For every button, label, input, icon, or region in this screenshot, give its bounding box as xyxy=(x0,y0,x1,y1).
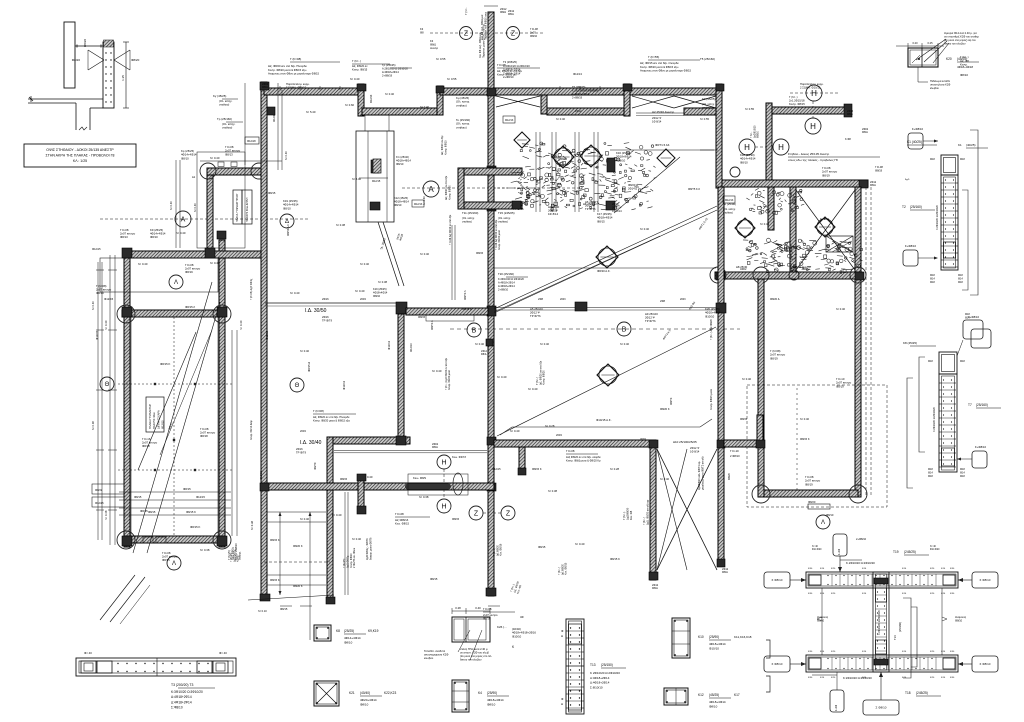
svg-text:h= 0.40: h= 0.40 xyxy=(210,261,220,265)
svg-text:Φ8/10: Φ8/10 xyxy=(344,641,353,645)
svg-text:2+Φ8/19: 2+Φ8/19 xyxy=(572,96,583,100)
svg-text:Φ8/15 Δ: Φ8/15 Δ xyxy=(307,362,311,372)
svg-text:Z: Z xyxy=(474,511,479,518)
svg-text:h= 0.38: h= 0.38 xyxy=(250,520,254,530)
svg-text:h= 0.40: h= 0.40 xyxy=(432,369,442,373)
svg-text:Γ ΣΩΜΑ. Φ20/12: Γ ΣΩΜΑ. Φ20/12 xyxy=(286,86,307,90)
svg-text:Κ26 (...: Κ26 (... xyxy=(497,625,507,629)
svg-text:Ι.Δ. 30/50: Ι.Δ. 30/50 xyxy=(305,308,327,314)
svg-text:H: H xyxy=(778,143,784,152)
svg-text:4Φ20+4Φ14: 4Φ20+4Φ14 xyxy=(360,698,377,702)
svg-text:h= 0.40: h= 0.40 xyxy=(475,342,485,346)
svg-text:4Φ18+4Φ18: 4Φ18+4Φ18 xyxy=(957,65,973,69)
svg-text:Σ:Φ8/10: Σ:Φ8/10 xyxy=(171,706,183,710)
svg-text:οπως εδω της πλακας - προβολ: οπως εδω της πλακας - προβολος Γ8 xyxy=(788,158,838,162)
svg-text:στηθαιο): στηθαιο) xyxy=(456,125,467,129)
svg-text:Φ8/Δ: Φ8/Δ xyxy=(862,131,868,134)
svg-text:Φ8/Δ: Φ8/Δ xyxy=(430,42,436,46)
svg-text:να υποστθμιζ Κ2Φ του σταθερ: να υποστθμιζ Κ2Φ του σταθερ xyxy=(944,35,979,39)
svg-text:Γ (h=..): Γ (h=..) xyxy=(352,59,361,63)
svg-text:Κεντρ. Φ8/10 διαφ: Κεντρ. Φ8/10 διαφ xyxy=(250,420,253,440)
svg-text:Γ (h=08): Γ (h=08) xyxy=(290,57,301,61)
svg-text:Φ8/10: Φ8/10 xyxy=(360,703,369,707)
svg-text:Φ18: Φ18 xyxy=(930,158,935,161)
svg-text:h= 0.40: h= 0.40 xyxy=(91,301,95,310)
svg-text:h= 0.40: h= 0.40 xyxy=(210,156,220,160)
svg-text:h= 0.40: h= 0.40 xyxy=(290,291,300,295)
svg-text:Φ12/15: Φ12/15 xyxy=(161,420,165,429)
svg-text:Φ18: Φ18 xyxy=(928,475,933,478)
svg-text:Φ8/10: Φ8/10 xyxy=(826,513,834,517)
svg-text:Γ D-08: Γ D-08 xyxy=(530,27,538,31)
svg-text:κλωβου: κλωβου xyxy=(930,86,940,90)
svg-text:H: H xyxy=(744,143,750,152)
svg-text:2003: 2003 xyxy=(560,298,566,301)
svg-text:(25/90): (25/90) xyxy=(709,635,719,639)
svg-text:Φ8/15 Κ: Φ8/15 Κ xyxy=(190,525,200,529)
svg-text:ΣΤΗΝ ΑΚΡΗ ΤΗΣ ΠΛΑΚΑΣ - ΠΡΟΒΟ: ΣΤΗΝ ΑΚΡΗ ΤΗΣ ΠΛΑΚΑΣ - ΠΡΟΒΟΛΟΙ Γ8 xyxy=(46,154,115,158)
svg-text:Κ17: Κ17 xyxy=(734,693,740,697)
svg-text:Φ10/10: Φ10/10 xyxy=(705,314,715,318)
svg-text:Κ:3Φ10/20 Ω:3Φ10/20: Κ:3Φ10/20 Ω:3Φ10/20 xyxy=(171,690,203,694)
svg-text:h= 0.38: h= 0.38 xyxy=(336,223,346,227)
svg-text:Φ8/15 Κ: Φ8/15 Κ xyxy=(270,538,280,542)
svg-text:Κ12 (45/25): Κ12 (45/25) xyxy=(394,196,408,200)
svg-text:μεγαλ. Φ8/Δ: μεγαλ. Φ8/Δ xyxy=(650,511,653,525)
svg-text:Φ8/15: Φ8/15 xyxy=(418,315,426,319)
svg-text:Φ8/20: Φ8/20 xyxy=(131,58,140,62)
svg-text:Φ12/13: Φ12/13 xyxy=(370,94,373,103)
svg-text:Τ15 (245/25): Τ15 (245/25) xyxy=(498,211,515,215)
svg-text:4Φ8/10: 4Φ8/10 xyxy=(616,158,626,162)
svg-text:Φ8/15 Κ: Φ8/15 Κ xyxy=(270,578,280,582)
svg-text:Φ12/13: Φ12/13 xyxy=(573,72,582,76)
svg-text:Κεν. Φ8: Κεν. Φ8 xyxy=(629,510,633,520)
svg-text:h= 0.40: h= 0.40 xyxy=(660,477,670,481)
svg-text:h= 0.40: h= 0.40 xyxy=(836,307,846,311)
svg-text:Φ8/15: Φ8/15 xyxy=(476,251,484,255)
svg-text:Φ8/15: Φ8/15 xyxy=(740,417,748,421)
svg-text:Γ D-08 Διξ Φ8/20 αν στα δξκ: Γ D-08 Διξ Φ8/20 αν στα δξκ xyxy=(449,214,452,245)
svg-text:Σ+Φ8: Σ+Φ8 xyxy=(835,704,838,711)
svg-text:Φ8/10: Φ8/10 xyxy=(483,617,491,621)
svg-text:Κεντρ. Φ8/Δ μεσα & Φ8/20 Κρ: Κεντρ. Φ8/Δ μεσα & Φ8/20 Κρ xyxy=(566,459,601,463)
svg-text:Κγ (45/25): Κγ (45/25) xyxy=(213,94,226,98)
svg-text:στηθαιο): στηθαιο) xyxy=(456,103,467,107)
svg-text:2+Φ8/10: 2+Φ8/10 xyxy=(856,537,867,541)
svg-text:Φ8/10: Φ8/10 xyxy=(757,131,760,138)
svg-text:h= 0.40: h= 0.40 xyxy=(497,375,507,379)
svg-text:2x07 κεντρο: 2x07 κεντρο xyxy=(483,613,498,617)
svg-text:Κ.Φ8: Κ.Φ8 xyxy=(845,138,851,141)
svg-text:Γ D-08: Γ D-08 xyxy=(497,63,506,67)
svg-text:h= 0.38: h= 0.38 xyxy=(378,280,388,284)
svg-text:Κεντρ. Φ8/20: Κεντρ. Φ8/20 xyxy=(448,185,451,200)
svg-text:h= 0.40: h= 0.40 xyxy=(385,92,395,96)
svg-text:Φ8/13: Φ8/13 xyxy=(120,235,128,239)
svg-text:Φ8/10: Φ8/10 xyxy=(394,203,402,207)
svg-text:2 ΦΕ/Τδ αν. Φδοκ: 2 ΦΕ/Τδ αν. Φδοκ xyxy=(353,547,356,568)
svg-text:Φ8/Δ: Φ8/Δ xyxy=(508,13,514,16)
svg-text:Γ (h=55): Γ (h=55) xyxy=(648,55,659,59)
svg-text:Φ8/Τ3: Φ8/Τ3 xyxy=(669,397,673,405)
svg-text:A: A xyxy=(428,185,434,194)
svg-text:Φ18: Φ18 xyxy=(960,158,965,161)
svg-text:Φ8/15: Φ8/15 xyxy=(340,477,348,481)
svg-text:(Ολ. κατηγ.: (Ολ. κατηγ. xyxy=(462,216,475,220)
svg-text:Κ:2Φ10/20 Ω:2Φ10/20: Κ:2Φ10/20 Ω:2Φ10/20 xyxy=(843,676,872,680)
svg-text:Φ14 Φ20: Φ14 Φ20 xyxy=(812,548,822,551)
svg-text:Φ8/20 Α.Σ.: Φ8/20 Α.Σ. xyxy=(597,269,611,273)
svg-text:1.35: 1.35 xyxy=(121,75,125,81)
svg-text:Κ19 (25/25): Κ19 (25/25) xyxy=(373,287,387,291)
svg-text:Φ8/15 Δ: Φ8/15 Δ xyxy=(462,307,472,311)
svg-text:Ι.Δ. 30/40: Ι.Δ. 30/40 xyxy=(300,440,322,446)
svg-text:h= 0.28: h= 0.28 xyxy=(610,467,620,471)
svg-text:(25/25): (25/25) xyxy=(344,629,354,633)
svg-text:Φ8/10: Φ8/10 xyxy=(396,162,404,166)
svg-text:Κεντρ. Φ8/20 μεσα & Φ8/15 εξω: Κεντρ. Φ8/20 μεσα & Φ8/15 εξω xyxy=(313,419,350,423)
svg-text:Κεν. Φ8/1δ: Κεν. Φ8/1δ xyxy=(500,543,503,556)
svg-text:Φ8/18: Φ8/18 xyxy=(200,434,208,438)
svg-text:Παραπετ. κολ Φ8/10 ανω: Παραπετ. κολ Φ8/10 ανω xyxy=(484,12,487,40)
svg-text:H: H xyxy=(811,89,817,98)
svg-text:Δ8 25/30: Δ8 25/30 xyxy=(736,265,748,269)
svg-text:(25/160): (25/160) xyxy=(976,403,988,407)
svg-text:(Ολ. κατηγ.: (Ολ. κατηγ. xyxy=(498,216,511,220)
svg-text:h= 0.38: h= 0.38 xyxy=(104,510,108,520)
svg-text:Α:2Φ10/20 Ω:2Φ10/20: Α:2Φ10/20 Ω:2Φ10/20 xyxy=(382,67,408,71)
svg-text:Φ8/15 Λ: Φ8/15 Λ xyxy=(185,305,195,309)
svg-text:Πεδιλωμα εσταθε: Πεδιλωμα εσταθε xyxy=(930,79,951,83)
svg-text:Παραπετασμ. κορμ.: Παραπετασμ. κορμ. xyxy=(800,82,824,86)
svg-text:(Ολ. κατηγ.: (Ολ. κατηγ. xyxy=(222,122,236,126)
svg-text:Φ8/15: Φ8/15 xyxy=(162,558,170,562)
svg-text:Α:2Φ10/20 Ω:2Φ10/20: Α:2Φ10/20 Ω:2Φ10/20 xyxy=(503,64,530,68)
svg-text:Τ20 (25/160): Τ20 (25/160) xyxy=(498,272,514,276)
svg-text:Φ8/19: Φ8/19 xyxy=(770,356,778,360)
svg-text:Κ22,Κ23: Κ22,Κ23 xyxy=(384,691,396,695)
svg-text:Δ:4Φ18+2Φ14: Δ:4Φ18+2Φ14 xyxy=(171,700,192,704)
svg-text:Αναμονες: Αναμονες xyxy=(955,615,967,619)
svg-text:Φ12/15: Φ12/15 xyxy=(95,330,99,340)
svg-text:Κ10: Κ10 xyxy=(698,635,704,639)
svg-text:Φ18: Φ18 xyxy=(958,281,963,284)
svg-text:Σ+Φ8: Σ+Φ8 xyxy=(838,548,841,555)
svg-text:αποστηριγμενα Κ2Φ: αποστηριγμενα Κ2Φ xyxy=(424,653,448,657)
svg-text:(45/25): (45/25) xyxy=(709,693,719,697)
svg-text:Τ14: Τ14 xyxy=(893,635,897,640)
svg-text:Σ+Φ8/10: Σ+Φ8/10 xyxy=(975,445,986,449)
svg-text:Φ8/Δ: Φ8/Δ xyxy=(652,587,658,590)
svg-text:Κ:2Φ10/20 Ω:2Φ10/20: Κ:2Φ10/20 Ω:2Φ10/20 xyxy=(933,406,936,432)
svg-text:Φ10/15 Α.Σ.: Φ10/15 Α.Σ. xyxy=(596,418,612,422)
svg-text:Δ:4Φ18+2Φ14: Δ:4Φ18+2Φ14 xyxy=(590,681,610,685)
svg-text:2Φ12 Ψ: 2Φ12 Ψ xyxy=(690,446,699,450)
svg-text:Φ8/Δ: Φ8/Δ xyxy=(481,353,487,356)
svg-text:Κεντρ.: Κεντρ. xyxy=(237,555,240,562)
svg-text:Φ8/10: Φ8/10 xyxy=(150,235,158,239)
svg-text:Φ12/13: Φ12/13 xyxy=(505,119,514,122)
svg-text:Γ (h=08): Γ (h=08) xyxy=(313,409,324,413)
svg-text:Α:4Φ18+2Φ14: Α:4Φ18+2Φ14 xyxy=(572,92,589,96)
svg-text:ΤΡ Φ/Τδ: ΤΡ Φ/Τδ xyxy=(585,207,596,211)
svg-text:h= 0.55: h= 0.55 xyxy=(447,77,457,81)
svg-text:Διξ. Φ8/20 αν στα δξκ. Πλευρδκ: Διξ. Φ8/20 αν στα δξκ. Πλευρδκ xyxy=(313,415,350,419)
svg-text:Κεντρ. Φ8/15: Κεντρ. Φ8/15 xyxy=(789,102,805,106)
svg-text:h= 0.40: h= 0.40 xyxy=(332,513,342,517)
svg-text:Λ: Λ xyxy=(172,561,176,567)
svg-text:ΠΛΑΚΑ ΓΥΜΝΑΣΤΗΡΙΟΥ: ΠΛΑΚΑ ΓΥΜΝΑΣΤΗΡΙΟΥ xyxy=(236,193,239,222)
svg-text:Φ8/15 Κ: Φ8/15 Κ xyxy=(800,437,810,441)
svg-text:2Φ8: 2Φ8 xyxy=(660,299,666,303)
svg-text:ανεστρ: ανεστρ xyxy=(430,47,439,50)
svg-text:h= 0.40: h= 0.40 xyxy=(820,217,830,221)
svg-text:4Φ: 4Φ xyxy=(520,615,524,619)
svg-text:4Φ18+4Φ14: 4Φ18+4Φ14 xyxy=(396,159,411,163)
svg-text:Γ D-08: Γ D-08 xyxy=(875,165,883,169)
svg-text:2Φ14 Δ: 2Φ14 Δ xyxy=(628,187,637,191)
svg-text:Κ:2Φ10/20 Ω:2Φ10/20: Κ:2Φ10/20 Ω:2Φ10/20 xyxy=(572,89,598,93)
svg-text:Λ: Λ xyxy=(821,520,825,526)
svg-text:Α:4Φ18+2Φ14: Α:4Φ18+2Φ14 xyxy=(590,676,610,680)
svg-text:ΠΑΧΟΥΣ 30εκ ΔΙΠΛΗ: ΠΑΧΟΥΣ 30εκ ΔΙΠΛΗ xyxy=(246,198,249,222)
svg-text:Α:4Φ18+2Φ14: Α:4Φ18+2Φ14 xyxy=(498,281,515,285)
svg-text:h= 0.40: h= 0.40 xyxy=(620,342,630,346)
svg-text:h= 0.40: h= 0.40 xyxy=(176,231,186,235)
svg-text:Κεντρ. Φ8/15: Κεντρ. Φ8/15 xyxy=(352,67,368,71)
svg-text:Κ9,Κ19: Κ9,Κ19 xyxy=(368,629,379,633)
svg-text:h= 0.40: h= 0.40 xyxy=(575,542,585,546)
svg-text:Γ D-08: Γ D-08 xyxy=(483,607,492,611)
svg-text:h= 0.40: h= 0.40 xyxy=(510,429,520,433)
svg-text:2Φ16: 2Φ16 xyxy=(322,315,329,319)
svg-text:Κεντρ. Φ8/15 μεσα: Κεντρ. Φ8/15 μεσα xyxy=(710,389,713,410)
svg-text:h= 0.60: h= 0.60 xyxy=(345,103,355,107)
svg-text:Φ8/Δ: Φ8/Δ xyxy=(432,446,438,449)
svg-text:h= 5.40: h= 5.40 xyxy=(306,110,316,114)
svg-text:Το (25/90): Το (25/90) xyxy=(723,202,736,206)
svg-text:Φ8/Τ5 Κ.Σ: Φ8/Τ5 Κ.Σ xyxy=(688,187,700,191)
svg-text:h= 0.40: h= 0.40 xyxy=(300,349,310,353)
svg-text:Φ8/20: Φ8/20 xyxy=(728,473,731,480)
svg-text:Φ8/10: Φ8/10 xyxy=(181,156,189,160)
svg-text:h= 0.28: h= 0.28 xyxy=(545,424,555,428)
svg-text:Δ8 25/30 Ανεστρ: Δ8 25/30 Ανεστρ xyxy=(790,265,811,269)
svg-text:(Ολ. κατηγ.: (Ολ. κατηγ. xyxy=(219,99,233,103)
svg-text:h= 0.38: h= 0.38 xyxy=(91,421,95,430)
svg-text:h= 0.38: h= 0.38 xyxy=(200,548,210,552)
svg-text:Φ8/10: Φ8/10 xyxy=(283,206,291,210)
svg-text:υποστηλωτα Κ2Φ: υποστηλωτα Κ2Φ xyxy=(930,83,950,87)
svg-text:Φ8/15: Φ8/15 xyxy=(560,157,568,161)
svg-text:ΔχΩΦ8/20: ΔχΩΦ8/20 xyxy=(625,507,629,520)
svg-text:2Φ12 Ψ: 2Φ12 Ψ xyxy=(652,116,661,120)
svg-text:1Φ 8/14: 1Φ 8/14 xyxy=(690,449,700,453)
svg-text:Φ12/13: Φ12/13 xyxy=(409,343,413,352)
svg-text:h= 0.40: h= 0.40 xyxy=(352,537,362,541)
svg-text:Θ: Θ xyxy=(105,382,110,388)
svg-text:Διξ. Φ8/20 αν: Διξ. Φ8/20 αν xyxy=(352,64,368,68)
svg-text:Κεντρ. Φ8/20 με..: Κεντρ. Φ8/20 με.. xyxy=(497,72,517,76)
svg-text:Φ8/15 Κ: Φ8/15 Κ xyxy=(186,510,196,514)
svg-text:Κεντρ. Φ8/20 μεσα & Φ8/15 εξω: Κεντρ. Φ8/20 μεσα & Φ8/15 εξω xyxy=(640,65,678,69)
svg-text:2 ΣΩΜΑ. Φ20/12: 2 ΣΩΜΑ. Φ20/12 xyxy=(800,86,821,90)
svg-text:H: H xyxy=(441,504,446,511)
svg-text:Φ8/Δ: Φ8/Δ xyxy=(722,571,728,574)
svg-text:h= 0.55: h= 0.55 xyxy=(745,107,755,111)
svg-text:Κ8 (45/25): Κ8 (45/25) xyxy=(903,341,917,345)
svg-text:ΚΛ : 1/25: ΚΛ : 1/25 xyxy=(73,159,87,163)
svg-text:Φ8/15: Φ8/15 xyxy=(280,607,288,611)
svg-text:(25/160): (25/160) xyxy=(910,205,922,209)
svg-text:Φ8/19: Φ8/19 xyxy=(805,482,813,486)
svg-text:0.20: 0.20 xyxy=(912,41,918,45)
svg-text:Γ (h=..) ΔχΩ Φ8/20: Γ (h=..) ΔχΩ Φ8/20 xyxy=(710,318,713,340)
svg-text:Φ8/20 Δ: Φ8/20 Δ xyxy=(770,297,780,301)
svg-text:Φ8/10: Φ8/10 xyxy=(530,34,538,38)
svg-text:Φ8/20 Δ: Φ8/20 Δ xyxy=(628,183,638,187)
svg-text:Φ12/15: Φ12/15 xyxy=(259,471,263,480)
svg-text:Γ (h=25) ΔχΩ Φ8/2χ: Γ (h=25) ΔχΩ Φ8/2χ xyxy=(250,278,253,300)
svg-text:Φ8/15: Φ8/15 xyxy=(597,219,605,223)
svg-text:Κ20: Κ20 xyxy=(946,57,952,61)
svg-text:Γ (h=..): Γ (h=..) xyxy=(622,512,626,520)
svg-text:Φ12/15: Φ12/15 xyxy=(372,180,381,183)
svg-text:2x07: 2x07 xyxy=(530,30,536,34)
svg-text:Φ12/13: Φ12/13 xyxy=(342,380,346,390)
svg-text:Φ12/15: Φ12/15 xyxy=(95,501,104,505)
svg-text:Κεντρ. Φ8/20 μεσα: Κεντρ. Φ8/20 μεσα xyxy=(498,229,501,250)
svg-text:Κ11,Κ16,Κ18: Κ11,Κ16,Κ18 xyxy=(734,635,752,639)
svg-text:Τ7: Τ7 xyxy=(968,403,972,407)
svg-text:Κεω. Φ3/Γδ: Κεω. Φ3/Γδ xyxy=(452,455,466,459)
svg-text:Κεντρ. Φ8/20 μεσα: Κεντρ. Φ8/20 μεσα xyxy=(448,369,451,390)
svg-text:2x1.2Φ15/18: 2x1.2Φ15/18 xyxy=(789,99,805,103)
svg-text:h= 40: h= 40 xyxy=(812,546,819,548)
svg-text:Τ2: Τ2 xyxy=(902,205,906,209)
svg-text:Τ5 (265/25): Τ5 (265/25) xyxy=(572,85,586,89)
svg-text:Φ8/19: Φ8/19 xyxy=(185,270,193,274)
svg-text:h= 0.10: h= 0.10 xyxy=(258,609,267,613)
svg-text:Φ8/15: Φ8/15 xyxy=(134,495,142,499)
svg-text:Κ:2Φ10/20 Ω:2Φ10/20: Κ:2Φ10/20 Ω:2Φ10/20 xyxy=(878,609,881,635)
svg-text:Θ: Θ xyxy=(295,383,300,389)
svg-text:Φ12/13: Φ12/13 xyxy=(725,199,734,202)
svg-text:(25/160): (25/160) xyxy=(898,622,902,632)
svg-text:Φ12/13: Φ12/13 xyxy=(414,203,423,206)
svg-text:(2ο μεσο στο μηκος στο τελ: (2ο μεσο στο μηκος στο τελ xyxy=(460,654,492,658)
svg-text:Φ8/Τ1.5 ΑΣ.: Φ8/Τ1.5 ΑΣ. xyxy=(655,143,670,147)
svg-text:h= 0.38: h= 0.38 xyxy=(548,489,558,493)
svg-text:Φ8/19: Φ8/19 xyxy=(822,173,830,177)
svg-text:στηθαιο): στηθαιο) xyxy=(219,103,229,107)
svg-text:σε αποστ. Κ2Φ του κλωβ: σε αποστ. Κ2Φ του κλωβ xyxy=(460,651,489,655)
svg-text:h= 0.40: h= 0.40 xyxy=(800,417,810,421)
svg-text:Τ5 (25/160): Τ5 (25/160) xyxy=(700,57,715,61)
svg-text:Φ8/Δ: Φ8/Δ xyxy=(847,113,853,116)
svg-text:Τρ (255/25): Τρ (255/25) xyxy=(382,63,396,67)
svg-text:Φ18: Φ18 xyxy=(960,475,965,478)
svg-text:Κ12: Κ12 xyxy=(698,693,704,697)
svg-text:2003: 2003 xyxy=(680,298,686,301)
svg-text:Κεω. Φ8/15: Κεω. Φ8/15 xyxy=(395,522,409,526)
svg-text:Φ8/20 Κ: Φ8/20 Κ xyxy=(660,407,670,411)
svg-text:στηθαιο): στηθαιο) xyxy=(723,210,733,214)
svg-text:Διξ. Φ8/15 κεν στα δξκ. πλευρδ: Διξ. Φ8/15 κεν στα δξκ. πλευρδκ xyxy=(640,61,679,65)
svg-text:Κ1: Κ1 xyxy=(958,143,962,147)
svg-text:στηθαιο): στηθαιο) xyxy=(462,219,472,223)
svg-text:1Φ 8/14: 1Φ 8/14 xyxy=(652,119,662,123)
svg-text:(25/150): (25/150) xyxy=(601,663,613,667)
svg-text:Z: Z xyxy=(506,511,511,518)
svg-text:Κεντρ. Φ8/15: Κεντρ. Φ8/15 xyxy=(444,140,447,155)
svg-text:2Φ16: 2Φ16 xyxy=(322,297,329,301)
svg-text:Δ:4Φ18+2Φ14: Δ:4Φ18+2Φ14 xyxy=(498,284,515,288)
svg-text:4Φ18+4Φ14: 4Φ18+4Φ14 xyxy=(709,700,726,704)
svg-text:Δ2 25/30 Ανεστρ: Δ2 25/30 Ανεστρ xyxy=(652,110,675,114)
svg-text:ΠΑΧΟΥΣ 30εκ: ΠΑΧΟΥΣ 30εκ xyxy=(152,412,156,429)
svg-text:Παραπετασμ. κορμ.: Παραπετασμ. κορμ. xyxy=(286,82,310,86)
svg-text:Φ8/19: Φ8/19 xyxy=(836,384,844,388)
svg-text:Γ D-08: Γ D-08 xyxy=(395,512,404,516)
svg-text:Σ Φ8/10: Σ Φ8/10 xyxy=(772,662,783,666)
svg-text:Φ18: Φ18 xyxy=(928,360,933,363)
svg-text:Σ:Φ10/10: Σ:Φ10/10 xyxy=(590,685,603,689)
svg-text:ΔΙΠΛΗ ΕΣΧΑΡΑ: ΔΙΠΛΗ ΕΣΧΑΡΑ xyxy=(156,410,160,429)
svg-text:Φ8/19: Φ8/19 xyxy=(95,488,103,492)
svg-text:h= 0.40: h= 0.40 xyxy=(556,117,566,121)
svg-text:κλωβου: κλωβου xyxy=(424,656,434,660)
svg-text:Σ+Φ8/10: Σ+Φ8/10 xyxy=(905,244,916,248)
svg-text:Δ: Δ xyxy=(561,702,563,706)
svg-text:h= 0.40: h= 0.40 xyxy=(355,289,365,293)
svg-text:h= 0.40: h= 0.40 xyxy=(420,252,430,256)
svg-text:Φ8/15 Κ: Φ8/15 Κ xyxy=(610,557,620,561)
svg-text:Κ:2Φ10/20 Ω:2Φ10/20: Κ:2Φ10/20 Ω:2Φ10/20 xyxy=(498,277,524,281)
svg-text:Γ (h=..): Γ (h=..) xyxy=(789,95,798,99)
svg-text:Φ8/10: Φ8/10 xyxy=(373,294,381,298)
svg-text:δικτυο του κλωβου: δικτυο του κλωβου xyxy=(944,42,966,46)
svg-text:Στηθαιο - Δοκος 25/135 Ανε: Στηθαιο - Δοκος 25/135 Ανεστρ xyxy=(788,152,830,156)
svg-text:Φ8/15: Φ8/15 xyxy=(183,487,191,491)
svg-text:h= 40: h= 40 xyxy=(930,546,937,548)
svg-text:Φ8/20 Κ: Φ8/20 Κ xyxy=(293,584,303,588)
svg-text:σταση ΓΡΗ μεσα 2.40 μ.: σταση ΓΡΗ μεσα 2.40 μ. xyxy=(460,647,488,651)
svg-text:h= 0.40: h= 0.40 xyxy=(284,151,288,160)
svg-text:B: B xyxy=(622,327,627,334)
svg-text:0.40: 0.40 xyxy=(475,606,481,610)
svg-text:h= 0.40: h= 0.40 xyxy=(540,342,550,346)
svg-text:Γ D-08: Γ D-08 xyxy=(566,449,575,453)
svg-text:Φ8/15: Φ8/15 xyxy=(148,510,156,514)
svg-text:1Φ 8/14: 1Φ 8/14 xyxy=(548,212,558,216)
svg-text:h= 0.55: h= 0.55 xyxy=(700,117,710,121)
svg-text:ΤΡ Φ/Τδ: ΤΡ Φ/Τδ xyxy=(645,319,656,323)
svg-text:3003: 3003 xyxy=(640,437,646,441)
svg-text:Φ8/20: Φ8/20 xyxy=(808,500,816,504)
svg-text:Κεν. Φ8/15: Κεν. Φ8/15 xyxy=(565,562,568,575)
svg-text:ΤΡ Φ/Τδ: ΤΡ Φ/Τδ xyxy=(530,314,541,318)
svg-text:Κεντρ. Φ8/20: Κεντρ. Φ8/20 xyxy=(543,370,546,385)
svg-text:Σ Φ8/10: Σ Φ8/10 xyxy=(772,578,783,582)
svg-text:Κ1 (40/25): Κ1 (40/25) xyxy=(907,140,922,144)
svg-text:2003: 2003 xyxy=(556,433,562,437)
svg-text:2003: 2003 xyxy=(360,297,366,301)
svg-text:Φ8/10: Φ8/10 xyxy=(740,160,748,164)
svg-text:Φ8/15: Φ8/15 xyxy=(538,545,546,549)
svg-text:Τ19: Τ19 xyxy=(893,550,899,554)
